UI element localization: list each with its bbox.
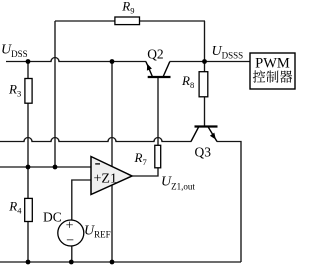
wire vertical x=55 from top rail down to node (55,167): [54, 21, 56, 167]
junction dot (55,167): [53, 165, 58, 170]
op-amp triangle body: [91, 157, 132, 195]
wire Q2 collector to U_DSSS node, y=61.5: [170, 61, 206, 63]
Q3 collector lead: [191, 127, 199, 142]
junction dot (71.3,262): [69, 260, 74, 265]
wire top rail y=21 from (55,21) to (205,21) through R9: [55, 20, 205, 22]
op-amp inverting input marker: [95, 163, 100, 165]
Q2 emitter arrow: [147, 64, 152, 71]
wire U_DSSS node to PWM controller box: [205, 61, 251, 63]
DC source U_REF: [43, 210, 111, 249]
wire op-amp output to R7 bottom, node U_Z1,out: [132, 168, 158, 176]
wire DC source bottom to bottom rail: [71, 246, 73, 262]
resistor R7: [155, 145, 161, 168]
wire R7 top up to Q2 base: [157, 78, 159, 146]
svg-text:PWM: PWM: [255, 56, 290, 72]
op-amp Z1: [91, 157, 132, 195]
Q3 emitter arrow: [210, 133, 216, 140]
wire op-amp inverting input rail y=167: [0, 166, 91, 168]
svg-text:Q2: Q2: [147, 46, 164, 61]
Q2 collector lead: [163, 62, 170, 77]
wire op-amp V- pin to bottom rail: [111, 185, 113, 262]
svg-text:+Z1: +Z1: [94, 172, 117, 187]
wire vertical x=204.5 from top rail through R8 to Q3 base: [204, 21, 206, 127]
Q2 base bar: [148, 76, 171, 78]
wire rail y=141.5 from left edge to Q3 base-left, hops over x=28,55,112,158: [0, 138, 191, 142]
wire vertical x=112 op-amp V+ supply from U_DSS rail: [111, 62, 113, 167]
resistor R8: [199, 72, 208, 97]
junction dot (28,262): [26, 260, 31, 265]
wire bottom rail y=262: [0, 261, 241, 263]
junction dot (204.5,61.5) U_DSSS node: [202, 59, 207, 64]
PWM controller rectangle: [250, 53, 295, 89]
svg-text:Q3: Q3: [195, 144, 212, 159]
svg-text:DC: DC: [43, 210, 62, 225]
wire node U_DSS rail y=61.5 with hop over x=55 vertical: [6, 58, 146, 62]
junction dot (28,61.5): [26, 59, 31, 64]
Q3 base bar: [195, 125, 218, 127]
transistor Q2: [146, 46, 171, 77]
svg-text:−: −: [66, 233, 74, 248]
svg-text:+: +: [66, 219, 74, 234]
wire Q3 emitter right loop: right at y=141.5 then down x=241: [217, 142, 241, 263]
resistor R3: [25, 79, 32, 104]
Q2 emitter lead: [146, 62, 153, 77]
label controller (Chinese): [253, 70, 292, 83]
junction dot (112,61.5): [110, 59, 115, 64]
resistor R4: [25, 198, 33, 221]
transistor Q3: [191, 127, 218, 160]
Q3 emitter lead: [208, 127, 217, 142]
junction dot (112,262): [110, 260, 115, 265]
DC source circle: [58, 220, 84, 246]
wire op-amp noninverting input to DC source top: [72, 180, 92, 220]
junction dot (28,167): [26, 165, 31, 170]
resistor R9: [115, 17, 140, 25]
PWM controller box U1: [250, 53, 295, 89]
wire vertical x=28 from U_DSS rail through R3 and R4 to bottom rail: [27, 62, 29, 263]
